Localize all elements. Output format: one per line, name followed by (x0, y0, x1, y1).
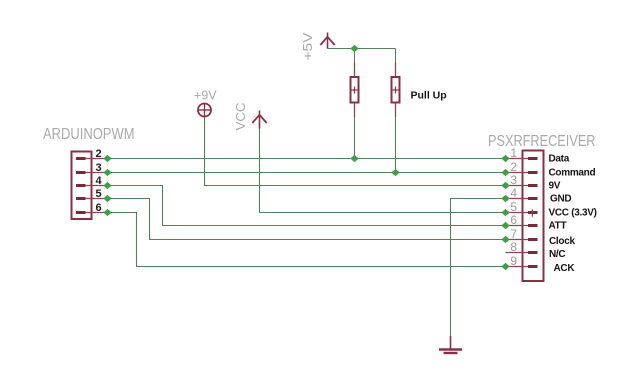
svg-text:5: 5 (96, 188, 102, 200)
supply symbol VCC (252, 111, 266, 129)
junction dot PSX pin2 (501, 169, 509, 176)
wire net GND (PSX pin4 to ground) (451, 199, 506, 337)
svg-text:VCC (3.3V): VCC (3.3V) (549, 208, 597, 219)
svg-text:3: 3 (96, 162, 102, 174)
pin 5 VCC (3.3V) of PSXRFRECEIVER (508, 200, 597, 219)
wire net ACK (Arduino pin6 to PSX pin9) (108, 213, 506, 267)
junction dot PSX pin4 (501, 195, 509, 202)
svg-text:2: 2 (510, 160, 517, 174)
svg-text:4: 4 (96, 175, 103, 187)
supply symbol +9V (198, 103, 212, 117)
svg-text:4: 4 (510, 186, 517, 200)
svg-text:5: 5 (510, 200, 517, 214)
svg-text:3: 3 (510, 173, 517, 187)
wire R2 bottom lead to Command (395, 103, 397, 173)
wire net Data (Arduino pin2 to PSX pin1) (108, 158, 506, 160)
ground symbol (439, 336, 462, 353)
connector J2 PSXRFRECEIVER body (523, 151, 544, 282)
wire R2 top lead (395, 49, 397, 78)
pin 2 of ARDUINOPWM (76, 148, 104, 160)
svg-text:8: 8 (510, 240, 517, 254)
svg-text:ARDUINOPWM: ARDUINOPWM (43, 126, 135, 143)
resistor R2 (pull-up) (392, 63, 400, 118)
junction dot Arduino pin3 (103, 169, 111, 176)
svg-text:2: 2 (96, 148, 102, 160)
svg-text:6: 6 (510, 213, 517, 227)
pin 7 Clock of PSXRFRECEIVER (508, 227, 575, 247)
wire net +5V top rail (328, 48, 396, 50)
junction dot PSX pin3 (501, 182, 509, 189)
svg-text:1: 1 (510, 146, 517, 160)
pin 4 GND of PSXRFRECEIVER (508, 186, 571, 205)
pin 9 ACK of PSXRFRECEIVER (508, 254, 575, 274)
svg-text:Command: Command (549, 168, 596, 179)
svg-text:9V: 9V (549, 181, 561, 192)
pin 4 of ARDUINOPWM (76, 175, 104, 187)
wire R1 top lead (354, 49, 356, 78)
junction at +5V rail / R1 (350, 45, 358, 52)
junction dot PSX pin7 (501, 236, 509, 243)
junction dot PSX pin9 (501, 263, 509, 270)
junction dot Arduino pin6 (103, 209, 111, 216)
svg-text:+5V: +5V (300, 32, 315, 60)
svg-text:7: 7 (510, 227, 517, 241)
connector J1 ARDUINOPWM body (72, 152, 92, 220)
svg-text:6: 6 (96, 202, 102, 214)
wire net ATT (Arduino pin4 to PSX pin6) (108, 186, 506, 226)
pin 8 N/C of PSXRFRECEIVER (506, 240, 566, 260)
pin 1 Data of PSXRFRECEIVER (508, 146, 570, 165)
wire net Clock (Arduino pin5 to PSX pin7) (108, 199, 506, 240)
pin 3 9V of PSXRFRECEIVER (508, 173, 561, 192)
junction dot PSX pin1 (501, 155, 509, 162)
junction dot PSX pin5 (501, 209, 509, 216)
junction dot PSX pin6 (501, 222, 509, 229)
junction dot Arduino pin2 (103, 155, 111, 162)
svg-text:ACK: ACK (554, 263, 576, 274)
wire net Command (Arduino pin3 to PSX pin2) (108, 172, 506, 174)
svg-text:Data: Data (549, 154, 570, 165)
svg-text:Pull Up: Pull Up (411, 90, 447, 102)
junction R2 on Command line (391, 169, 399, 176)
svg-text:9: 9 (510, 254, 517, 268)
wire R1 bottom lead to Data (354, 103, 356, 159)
svg-text:+9V: +9V (194, 89, 217, 103)
junction dot Arduino pin5 (103, 195, 111, 202)
resistor R1 (pull-up) (351, 63, 359, 118)
svg-text:GND: GND (550, 194, 571, 205)
pin 3 of ARDUINOPWM (76, 162, 104, 174)
svg-text:PSXRFRECEIVER: PSXRFRECEIVER (488, 133, 596, 150)
svg-text:VCC: VCC (233, 103, 248, 131)
svg-text:Clock: Clock (549, 236, 575, 247)
svg-text:ATT: ATT (549, 221, 567, 232)
svg-text:N/C: N/C (549, 249, 565, 260)
junction dot Arduino pin4 (103, 182, 111, 189)
pin 6 ATT of PSXRFRECEIVER (508, 213, 566, 232)
wire net VCC (VCC arrow to PSX pin5) (260, 128, 506, 213)
pin 2 Command of PSXRFRECEIVER (508, 160, 595, 179)
pin 5 of ARDUINOPWM (76, 188, 104, 200)
junction R1 on Data line (350, 155, 358, 162)
supply symbol +5V (320, 33, 334, 49)
pin 6 of ARDUINOPWM (76, 202, 104, 214)
wire net 9V (+9V supply to PSX pin3) (205, 117, 506, 186)
